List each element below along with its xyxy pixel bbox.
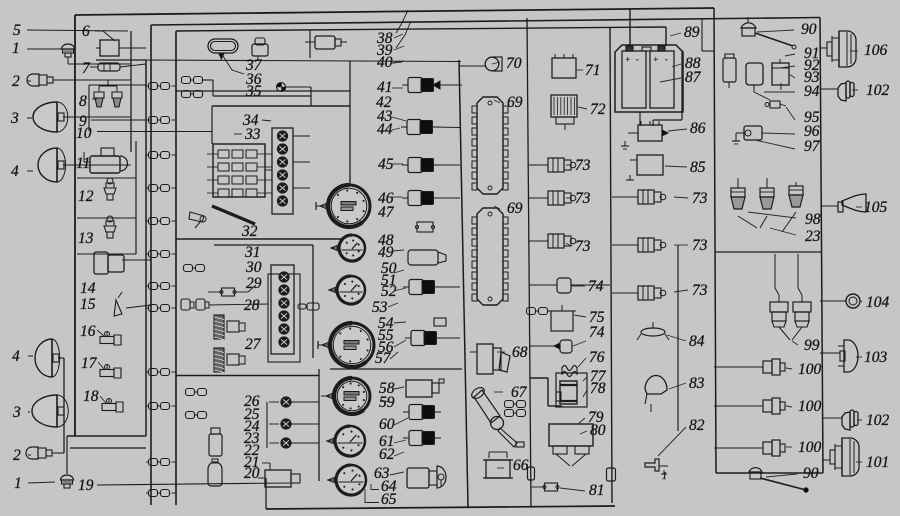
svg-text:30: 30 <box>245 259 262 276</box>
svg-text:99: 99 <box>804 337 820 354</box>
svg-text:85: 85 <box>690 159 706 176</box>
svg-text:5: 5 <box>13 22 21 39</box>
svg-text:73: 73 <box>692 190 708 207</box>
svg-text:6: 6 <box>82 23 90 40</box>
svg-text:60: 60 <box>379 416 395 433</box>
svg-text:20: 20 <box>244 465 260 482</box>
svg-text:103: 103 <box>864 349 888 366</box>
svg-text:76: 76 <box>589 349 605 366</box>
svg-text:1: 1 <box>12 40 20 57</box>
svg-text:86: 86 <box>690 120 706 137</box>
svg-text:73: 73 <box>575 238 591 255</box>
svg-text:101: 101 <box>866 454 889 471</box>
svg-text:73: 73 <box>692 282 708 299</box>
svg-text:35: 35 <box>245 83 262 100</box>
svg-text:90: 90 <box>801 21 817 38</box>
svg-text:69: 69 <box>507 94 523 111</box>
svg-text:82: 82 <box>689 417 705 434</box>
svg-text:2: 2 <box>12 73 20 90</box>
svg-text:33: 33 <box>244 126 261 143</box>
svg-text:80: 80 <box>590 422 606 439</box>
svg-text:27: 27 <box>245 336 262 353</box>
svg-text:32: 32 <box>241 223 258 240</box>
svg-text:11: 11 <box>76 155 90 172</box>
svg-text:18: 18 <box>83 388 99 405</box>
svg-text:89: 89 <box>684 24 700 41</box>
svg-text:73: 73 <box>692 237 708 254</box>
svg-text:94: 94 <box>804 83 820 100</box>
svg-text:16: 16 <box>80 323 96 340</box>
svg-text:17: 17 <box>81 355 98 372</box>
svg-text:47: 47 <box>378 204 395 221</box>
svg-text:3: 3 <box>10 110 19 127</box>
svg-text:102: 102 <box>866 412 890 429</box>
svg-text:23: 23 <box>805 228 821 245</box>
svg-text:102: 102 <box>866 82 890 99</box>
svg-text:14: 14 <box>80 280 96 297</box>
svg-text:29: 29 <box>246 275 262 292</box>
svg-text:105: 105 <box>864 199 888 216</box>
svg-text:68: 68 <box>512 344 528 361</box>
svg-text:52: 52 <box>381 283 397 300</box>
svg-text:1: 1 <box>662 471 667 482</box>
svg-text:15: 15 <box>80 296 96 313</box>
svg-text:45: 45 <box>378 156 394 173</box>
svg-text:4: 4 <box>12 348 20 365</box>
svg-text:2: 2 <box>13 447 21 464</box>
svg-text:84: 84 <box>689 333 705 350</box>
svg-text:66: 66 <box>513 457 529 474</box>
svg-text:49: 49 <box>378 244 394 261</box>
svg-text:-: - <box>665 55 668 64</box>
svg-text:57: 57 <box>375 350 392 367</box>
svg-text:67: 67 <box>511 384 528 401</box>
svg-text:97: 97 <box>804 138 821 155</box>
svg-text:3: 3 <box>12 404 21 421</box>
svg-text:81: 81 <box>589 482 605 499</box>
svg-text:74: 74 <box>588 278 604 295</box>
svg-text:78: 78 <box>590 380 606 397</box>
svg-text:+: + <box>653 55 658 64</box>
svg-text:98: 98 <box>805 211 821 228</box>
svg-text:1: 1 <box>14 475 22 492</box>
svg-text:87: 87 <box>685 69 702 86</box>
svg-text:12: 12 <box>78 188 94 205</box>
svg-text:100: 100 <box>798 398 822 415</box>
svg-text:65: 65 <box>381 491 397 508</box>
svg-text:100: 100 <box>798 361 822 378</box>
svg-text:71: 71 <box>585 62 601 79</box>
svg-text:100: 100 <box>798 439 822 456</box>
svg-text:62: 62 <box>379 446 395 463</box>
svg-text:83: 83 <box>689 375 705 392</box>
svg-text:104: 104 <box>866 294 890 311</box>
svg-text:73: 73 <box>575 190 591 207</box>
svg-text:90: 90 <box>803 465 819 482</box>
svg-text:13: 13 <box>78 230 94 247</box>
svg-text:8: 8 <box>79 93 87 110</box>
svg-text:19: 19 <box>78 477 94 494</box>
svg-text:28: 28 <box>244 297 260 314</box>
svg-text:7: 7 <box>82 60 91 77</box>
svg-text:+: + <box>625 55 630 64</box>
svg-text:69: 69 <box>507 200 523 217</box>
svg-text:4: 4 <box>11 163 19 180</box>
svg-text:106: 106 <box>864 42 888 59</box>
svg-text:70: 70 <box>506 55 522 72</box>
svg-text:44: 44 <box>377 121 393 138</box>
svg-text:10: 10 <box>76 125 92 142</box>
svg-text:53: 53 <box>372 299 388 316</box>
svg-text:74: 74 <box>589 324 605 341</box>
svg-text:40: 40 <box>377 54 393 71</box>
svg-text:73: 73 <box>575 157 591 174</box>
svg-text:72: 72 <box>590 101 606 118</box>
svg-text:-: - <box>636 55 639 64</box>
